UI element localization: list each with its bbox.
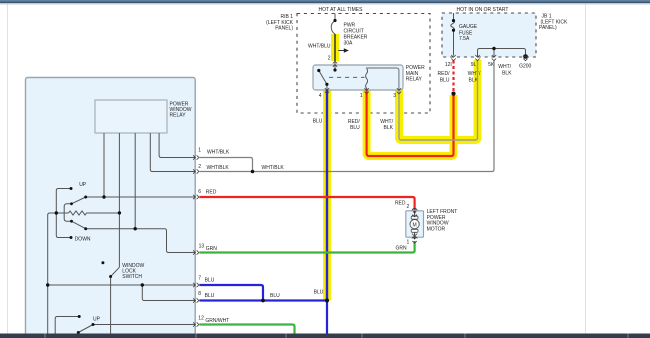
svg-text:1: 1 [360, 93, 363, 99]
svg-text:WHT/: WHT/ [498, 64, 511, 70]
svg-text:7: 7 [198, 276, 201, 282]
svg-text:4: 4 [319, 93, 322, 99]
svg-text:7.5A: 7.5A [459, 36, 470, 42]
svg-text:BLU: BLU [350, 125, 360, 131]
svg-text:30A: 30A [344, 40, 354, 46]
svg-text:WHT/: WHT/ [468, 71, 481, 77]
svg-text:BLK: BLK [384, 125, 394, 131]
svg-text:RED: RED [206, 189, 217, 195]
svg-text:8: 8 [198, 291, 201, 297]
svg-text:12I: 12I [445, 62, 452, 68]
svg-text:GRN/WHT: GRN/WHT [205, 318, 229, 324]
svg-text:BLU: BLU [205, 293, 215, 299]
svg-text:BLU: BLU [314, 289, 324, 295]
svg-text:1: 1 [407, 240, 410, 246]
svg-text:1: 1 [198, 148, 201, 154]
svg-text:M: M [413, 222, 417, 228]
svg-text:DOWN: DOWN [75, 237, 91, 243]
svg-text:2: 2 [328, 56, 331, 62]
svg-text:WHT/BLK: WHT/BLK [207, 165, 230, 171]
svg-text:3: 3 [393, 93, 396, 99]
svg-text:UP: UP [93, 317, 101, 323]
svg-text:13: 13 [199, 243, 205, 249]
svg-text:RED/: RED/ [438, 71, 451, 77]
svg-text:LEFT FRONT: LEFT FRONT [427, 209, 458, 215]
svg-text:UP: UP [79, 182, 87, 188]
svg-text:6: 6 [198, 189, 201, 195]
svg-text:PANEL): PANEL) [275, 26, 293, 32]
svg-text:SWITCH: SWITCH [122, 274, 142, 280]
svg-text:12: 12 [198, 315, 204, 321]
svg-text:2: 2 [198, 164, 201, 170]
svg-text:BLU: BLU [205, 278, 215, 284]
svg-text:PANEL): PANEL) [539, 25, 557, 31]
svg-text:WHT/BLK: WHT/BLK [207, 149, 230, 155]
svg-text:WHT/BLU: WHT/BLU [308, 43, 331, 49]
svg-text:GAUGE: GAUGE [459, 24, 478, 30]
svg-text:2: 2 [407, 204, 410, 210]
svg-text:BLK: BLK [502, 71, 512, 77]
svg-text:RED: RED [395, 200, 406, 206]
svg-text:WINDOW: WINDOW [427, 220, 449, 226]
svg-text:MOTOR: MOTOR [427, 227, 446, 233]
svg-text:G200: G200 [519, 64, 531, 70]
svg-text:GRN: GRN [395, 246, 407, 252]
svg-text:HOT IN ON OR START: HOT IN ON OR START [457, 7, 509, 13]
svg-text:9L: 9L [471, 62, 477, 68]
svg-text:HOT AT ALL TIMES: HOT AT ALL TIMES [319, 7, 364, 13]
svg-text:BLU: BLU [440, 77, 450, 83]
svg-text:BLU: BLU [313, 119, 323, 125]
svg-text:BLU: BLU [270, 293, 280, 299]
svg-text:RELAY: RELAY [406, 77, 423, 83]
svg-text:WHT/BLK: WHT/BLK [262, 165, 285, 171]
svg-text:RELAY: RELAY [170, 113, 187, 119]
svg-text:GRN: GRN [206, 246, 218, 252]
